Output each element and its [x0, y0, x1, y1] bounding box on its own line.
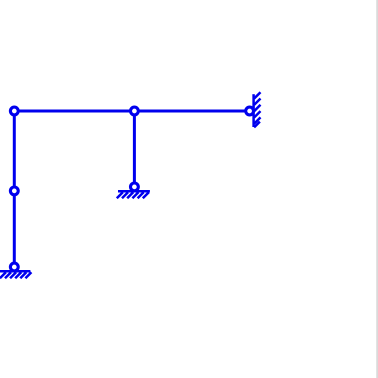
node F: pin support hinge circle middle [131, 183, 139, 191]
ground: pin support F ground line [118, 190, 150, 193]
node E: pin support hinge circle bottom-left [10, 263, 18, 271]
wire: middle column from node B to support F [133, 111, 136, 187]
ground: pin support E ground line [0, 270, 30, 273]
wire: horizontal beam from node A to node C [14, 110, 249, 113]
wall hatching at support C [254, 92, 260, 127]
node A: hinge circle top-left [10, 107, 18, 115]
right window edge line [376, 0, 378, 378]
ground hatching at support F [117, 192, 149, 198]
wire: left column from node A through node D to support E [13, 111, 16, 267]
node B: hinge circle top-middle [131, 107, 139, 115]
node C: hinge circle at wall support [246, 107, 254, 115]
ground hatching at support E [0, 272, 31, 278]
wall: support C wall line [252, 94, 255, 127]
node D: hinge circle on left column [10, 187, 18, 195]
